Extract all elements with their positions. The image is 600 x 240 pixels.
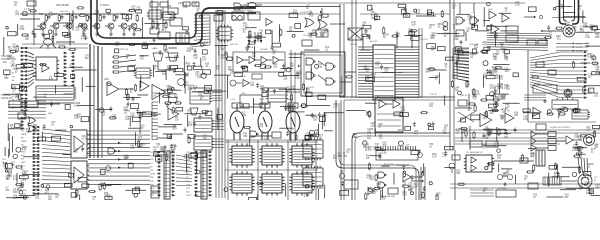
box part bbox=[191, 152, 196, 157]
capacitor bbox=[136, 109, 139, 114]
junction bbox=[200, 15, 203, 18]
potentiometer RV1 bbox=[153, 53, 163, 61]
wire bbox=[33, 96, 44, 98]
wire bbox=[55, 29, 57, 32]
wire bbox=[120, 70, 136, 72]
wire bbox=[346, 109, 366, 111]
wire bbox=[324, 185, 326, 199]
resistor bbox=[373, 187, 381, 189]
svg-text:1K: 1K bbox=[378, 126, 381, 128]
box part bbox=[136, 10, 142, 13]
capacitor bbox=[488, 69, 491, 74]
wire bbox=[9, 128, 25, 130]
wire bbox=[214, 146, 224, 148]
transistor Q6 bbox=[108, 23, 114, 29]
wire bbox=[126, 14, 128, 15]
svg-text:.001: .001 bbox=[320, 36, 325, 38]
resistor bbox=[39, 64, 47, 66]
resistor bbox=[521, 154, 523, 162]
svg-text:5.6K: 5.6K bbox=[188, 125, 193, 127]
wire bbox=[591, 195, 600, 197]
wire bbox=[495, 31, 497, 46]
svg-text:2.2K: 2.2K bbox=[7, 58, 12, 60]
box part bbox=[234, 73, 243, 76]
wire bus bbox=[257, 140, 259, 200]
resistor bbox=[243, 126, 251, 128]
wire bbox=[473, 3, 475, 14]
resistor bbox=[465, 129, 467, 137]
wire bbox=[528, 148, 537, 150]
gate U6c bbox=[326, 63, 334, 70]
capacitor bbox=[51, 35, 54, 40]
box part bbox=[65, 105, 70, 110]
wire bbox=[140, 75, 142, 88]
connector J7 pins b bbox=[36, 126, 39, 194]
box K2 bbox=[527, 40, 536, 45]
resistor bbox=[369, 110, 371, 118]
wire bbox=[330, 23, 345, 25]
wire bbox=[377, 119, 401, 121]
resistor bbox=[172, 106, 174, 114]
wire bbox=[28, 60, 34, 61]
svg-text:A1: A1 bbox=[12, 60, 14, 63]
svg-text:2.2K: 2.2K bbox=[295, 78, 300, 80]
box power-up R1 bbox=[232, 12, 244, 20]
capacitor bbox=[173, 68, 176, 73]
svg-text:1K: 1K bbox=[452, 78, 455, 80]
svg-text:68K: 68K bbox=[585, 185, 590, 187]
resistor bbox=[249, 30, 251, 38]
transistor Q10 bbox=[232, 16, 243, 21]
wire bbox=[243, 59, 248, 61]
svg-text:4.7K: 4.7K bbox=[22, 149, 27, 151]
svg-text:DATA: DATA bbox=[21, 140, 27, 143]
wire bbox=[494, 93, 510, 95]
svg-text:.001: .001 bbox=[10, 128, 15, 130]
svg-text:1K: 1K bbox=[429, 27, 432, 29]
box part bbox=[205, 85, 212, 90]
wire bbox=[318, 61, 326, 66]
box part bbox=[100, 170, 105, 175]
capacitor bbox=[256, 83, 259, 88]
svg-text:.001: .001 bbox=[174, 97, 179, 99]
box part bbox=[188, 135, 195, 139]
box part bbox=[71, 75, 75, 79]
wire bbox=[120, 65, 136, 67]
arrow bbox=[572, 50, 574, 52]
box power-up C1 bbox=[248, 12, 260, 20]
svg-text:10K: 10K bbox=[67, 26, 72, 28]
ground bbox=[126, 102, 130, 106]
wire bbox=[34, 28, 44, 30]
capacitor bbox=[559, 108, 562, 113]
box part bbox=[203, 70, 211, 74]
svg-text:P/O W1: P/O W1 bbox=[576, 47, 582, 49]
box part bbox=[574, 109, 580, 112]
wire bbox=[416, 15, 436, 17]
wire bbox=[411, 172, 422, 177]
wire bbox=[524, 16, 534, 18]
wire bbox=[573, 139, 582, 141]
wire bbox=[341, 76, 343, 94]
resistor bbox=[544, 36, 552, 38]
wire bbox=[499, 12, 512, 14]
svg-text:10K: 10K bbox=[443, 133, 448, 135]
op-amp A9 line driver bbox=[566, 136, 573, 144]
capacitor bbox=[186, 30, 189, 35]
svg-text:EN: EN bbox=[21, 159, 24, 161]
box T2 bbox=[456, 30, 464, 36]
box part bbox=[51, 136, 60, 141]
svg-text:CABLE W1: CABLE W1 bbox=[1, 97, 13, 100]
ic U1 buffer bbox=[34, 57, 59, 80]
op-amp U7c bbox=[261, 57, 267, 64]
capacitor bbox=[193, 62, 196, 67]
resistor R21 bbox=[58, 46, 66, 48]
transistor Q11 bbox=[230, 80, 242, 86]
svg-text:A7 FILTER: A7 FILTER bbox=[384, 163, 395, 166]
wire bbox=[557, 164, 559, 179]
wire bbox=[157, 93, 176, 95]
arrow harness bbox=[118, 142, 121, 144]
wire bbox=[283, 75, 299, 77]
capacitor bbox=[341, 181, 344, 186]
ic A4 pin fan bbox=[194, 15, 210, 47]
op-amp U31b bbox=[471, 165, 476, 171]
box part bbox=[62, 32, 67, 35]
resistor bbox=[422, 191, 424, 199]
box K4 bbox=[9, 101, 21, 107]
wire bbox=[493, 63, 509, 65]
wire feed bbox=[22, 43, 88, 45]
wire bbox=[176, 174, 192, 175]
op-amp U1a bbox=[42, 64, 49, 72]
wire bbox=[36, 102, 74, 104]
wire bbox=[128, 25, 131, 27]
wire coax W4 bbox=[572, 0, 579, 24]
wire bbox=[45, 14, 47, 15]
wire bbox=[382, 71, 403, 73]
wire bbox=[536, 147, 548, 149]
box part bbox=[405, 126, 411, 130]
box C96 bbox=[486, 141, 498, 147]
svg-text:1K: 1K bbox=[264, 139, 267, 141]
box part bbox=[16, 65, 25, 69]
wire bbox=[155, 154, 165, 156]
wire bbox=[187, 115, 189, 127]
wire bbox=[255, 59, 260, 61]
potentiometer RV2 bbox=[168, 53, 178, 61]
wire bbox=[578, 153, 586, 155]
junction bbox=[134, 194, 138, 198]
wire bbox=[158, 92, 160, 103]
svg-text:4.7K: 4.7K bbox=[502, 176, 507, 178]
junction bbox=[79, 23, 82, 26]
arrow keyed line 2 bbox=[260, 40, 263, 43]
wire bbox=[56, 41, 75, 43]
junction bbox=[472, 24, 475, 27]
potentiometer RV4 bbox=[339, 170, 344, 179]
wire bbox=[249, 129, 251, 141]
junction bbox=[99, 108, 104, 113]
svg-text:U9: U9 bbox=[130, 12, 134, 16]
box part bbox=[319, 117, 325, 122]
wire bbox=[556, 46, 588, 48]
capacitor bbox=[273, 89, 276, 94]
op-amp AR2 bbox=[140, 81, 149, 91]
wire bbox=[576, 31, 594, 33]
wire bbox=[172, 157, 174, 166]
wire bbox=[176, 181, 192, 183]
resistor bbox=[531, 76, 539, 78]
wire bbox=[72, 10, 74, 30]
wire bbox=[279, 24, 281, 42]
wire bbox=[20, 18, 40, 20]
wire cross bbox=[458, 112, 474, 122]
junction bbox=[21, 86, 24, 89]
wire bbox=[444, 166, 454, 168]
svg-text:POWER UP RESET: POWER UP RESET bbox=[236, 10, 254, 12]
connector pin fan bbox=[152, 102, 158, 139]
ground bbox=[67, 32, 71, 36]
box part bbox=[445, 57, 452, 60]
wire bbox=[161, 89, 177, 91]
svg-text:68K: 68K bbox=[595, 37, 600, 39]
ground bbox=[152, 38, 156, 42]
box part bbox=[55, 73, 64, 76]
transistor Q8 bbox=[131, 23, 137, 29]
svg-text:P/O: P/O bbox=[2, 159, 6, 161]
wire bbox=[459, 3, 461, 14]
resistor bbox=[68, 48, 76, 50]
wire bbox=[175, 74, 188, 76]
wire bundle down bbox=[101, 47, 103, 158]
svg-text:4.7K: 4.7K bbox=[81, 39, 86, 41]
svg-text:68K: 68K bbox=[408, 190, 413, 192]
wire bbox=[196, 155, 198, 172]
wire bbox=[118, 25, 121, 27]
box part bbox=[411, 151, 419, 155]
capacitor C70 bbox=[539, 15, 542, 18]
resistor bbox=[345, 76, 353, 78]
box part bbox=[593, 26, 598, 30]
wire bbox=[214, 123, 224, 125]
wire bbox=[183, 69, 185, 87]
box part bbox=[438, 47, 446, 51]
svg-text:1UF: 1UF bbox=[333, 106, 338, 108]
box part bbox=[428, 13, 434, 16]
svg-text:.001: .001 bbox=[273, 66, 278, 68]
svg-text:1K: 1K bbox=[405, 148, 408, 150]
svg-text:10K: 10K bbox=[74, 106, 79, 108]
box part bbox=[374, 16, 379, 20]
svg-text:.001: .001 bbox=[501, 98, 506, 100]
wire duct inner rail bbox=[97, 0, 256, 38]
wire bbox=[473, 15, 475, 27]
wire bbox=[323, 112, 325, 126]
wire bbox=[218, 46, 220, 56]
wire bbox=[548, 173, 550, 187]
wire bundle down bbox=[97, 46, 99, 158]
arrow harness bbox=[118, 166, 121, 168]
svg-text:4.7K: 4.7K bbox=[505, 111, 510, 113]
wire bbox=[524, 99, 546, 101]
svg-text:1K: 1K bbox=[436, 196, 439, 198]
box part bbox=[170, 66, 177, 69]
wire bbox=[69, 31, 71, 45]
svg-text:1K: 1K bbox=[429, 147, 432, 149]
op-amp AR11 bbox=[403, 173, 411, 182]
svg-text:10K: 10K bbox=[183, 7, 188, 9]
transistor Q4 bbox=[81, 23, 87, 29]
box part bbox=[11, 85, 20, 89]
capacitor C49 bbox=[48, 15, 51, 20]
wire bbox=[583, 26, 594, 28]
box part bbox=[128, 163, 133, 168]
wire bbox=[558, 108, 560, 118]
wire bus x344 bbox=[343, 100, 345, 200]
wire coax W2 bbox=[560, 0, 567, 24]
svg-text:H7: H7 bbox=[12, 76, 14, 78]
capacitor bbox=[444, 151, 447, 156]
box part bbox=[194, 66, 202, 69]
box part bbox=[429, 127, 434, 130]
box part bbox=[488, 104, 496, 108]
wire bbox=[386, 103, 392, 105]
ic U13 synthesizer bbox=[373, 45, 395, 100]
svg-text:1UF: 1UF bbox=[432, 157, 437, 159]
wire bbox=[200, 58, 202, 67]
svg-text:68K: 68K bbox=[431, 49, 436, 51]
resistor R50 bbox=[240, 66, 248, 68]
gate U30a bbox=[378, 172, 385, 178]
svg-text:5.6K: 5.6K bbox=[382, 152, 387, 154]
wire bbox=[483, 7, 485, 27]
wire bbox=[212, 94, 222, 96]
wire bbox=[360, 13, 450, 15]
arrow harness bbox=[118, 150, 121, 152]
resistor bbox=[576, 147, 584, 149]
resistor bbox=[572, 61, 574, 69]
svg-text:1UF: 1UF bbox=[530, 155, 535, 157]
wire bus h2 bbox=[344, 99, 455, 101]
svg-text:C19 470: C19 470 bbox=[420, 39, 428, 41]
box part bbox=[398, 4, 406, 7]
box part bbox=[471, 115, 480, 120]
wire bbox=[184, 72, 186, 94]
junction bbox=[6, 27, 9, 30]
box R70 bbox=[536, 62, 544, 67]
wire bbox=[429, 77, 438, 79]
wire bbox=[217, 108, 219, 130]
box part bbox=[401, 9, 406, 14]
capacitor bbox=[323, 112, 326, 117]
wire bbox=[581, 62, 591, 64]
resistor R31 bbox=[112, 61, 120, 63]
wire bbox=[133, 29, 135, 32]
resistor bbox=[491, 110, 499, 112]
wire bbox=[28, 73, 34, 75]
wire bbox=[214, 138, 224, 140]
box part bbox=[427, 10, 431, 15]
op-amp U2b comparator bbox=[266, 19, 272, 26]
svg-text:10K: 10K bbox=[497, 86, 502, 88]
wire bbox=[280, 106, 296, 108]
box part bbox=[472, 49, 476, 54]
resistor bbox=[201, 111, 209, 113]
wire bus vertical2 bbox=[343, 4, 345, 98]
junction E2 bbox=[541, 30, 543, 32]
op-amp AR5 bbox=[533, 108, 541, 117]
wire bbox=[63, 25, 66, 27]
svg-text:1K: 1K bbox=[524, 179, 527, 181]
resistor bbox=[135, 84, 137, 92]
svg-text:1K: 1K bbox=[124, 113, 127, 115]
capacitor bbox=[577, 147, 580, 152]
resistor bbox=[280, 28, 282, 36]
wire bbox=[461, 131, 463, 142]
ic A5 pin fan bbox=[453, 48, 469, 81]
resistor bbox=[9, 50, 17, 52]
wire bbox=[17, 24, 19, 36]
wire bbox=[176, 170, 192, 171]
capacitor bbox=[166, 103, 169, 108]
box bias R92 bbox=[288, 103, 298, 108]
wire bus bbox=[224, 10, 226, 198]
svg-text:P/O REGULATOR: P/O REGULATOR bbox=[466, 151, 483, 154]
box mixer A2 bbox=[168, 8, 178, 14]
wire bbox=[585, 85, 600, 87]
svg-text:L34 100: L34 100 bbox=[350, 44, 358, 46]
ic U25 audio bbox=[289, 143, 314, 167]
box K5 bbox=[26, 101, 38, 107]
wire cable pair bottom bbox=[336, 100, 419, 200]
wire bus bbox=[315, 140, 317, 200]
box part bbox=[156, 157, 162, 162]
box bias R91 bbox=[260, 103, 270, 108]
box part bbox=[69, 174, 74, 178]
wire bus top2 bbox=[246, 2, 525, 4]
resistor bbox=[109, 117, 117, 119]
junction bbox=[310, 130, 315, 135]
op-amp U19a bbox=[531, 131, 536, 137]
junction bbox=[106, 166, 111, 171]
wire bbox=[11, 136, 13, 152]
wire bbox=[28, 70, 34, 72]
resistor R61 bbox=[174, 102, 182, 104]
wire bus bbox=[227, 140, 229, 200]
junction bbox=[575, 109, 578, 112]
wire bbox=[556, 5, 572, 7]
ic U23 audio bbox=[229, 143, 254, 167]
resistor R14 bbox=[99, 14, 101, 22]
box part bbox=[504, 50, 509, 54]
wire bbox=[500, 30, 518, 32]
wire bbox=[55, 129, 67, 131]
wire bbox=[374, 128, 376, 136]
box part bbox=[81, 117, 89, 122]
op-amp AR8 bbox=[379, 100, 386, 108]
resistor bbox=[76, 189, 78, 197]
svg-text:10K: 10K bbox=[115, 45, 120, 47]
wire bbox=[214, 128, 224, 130]
svg-text:2.2K: 2.2K bbox=[442, 156, 447, 158]
box C100 bbox=[151, 193, 159, 198]
box shield enclosure bbox=[301, 52, 345, 96]
wire bbox=[253, 98, 255, 114]
wire bbox=[99, 14, 101, 15]
junction bbox=[485, 166, 488, 169]
